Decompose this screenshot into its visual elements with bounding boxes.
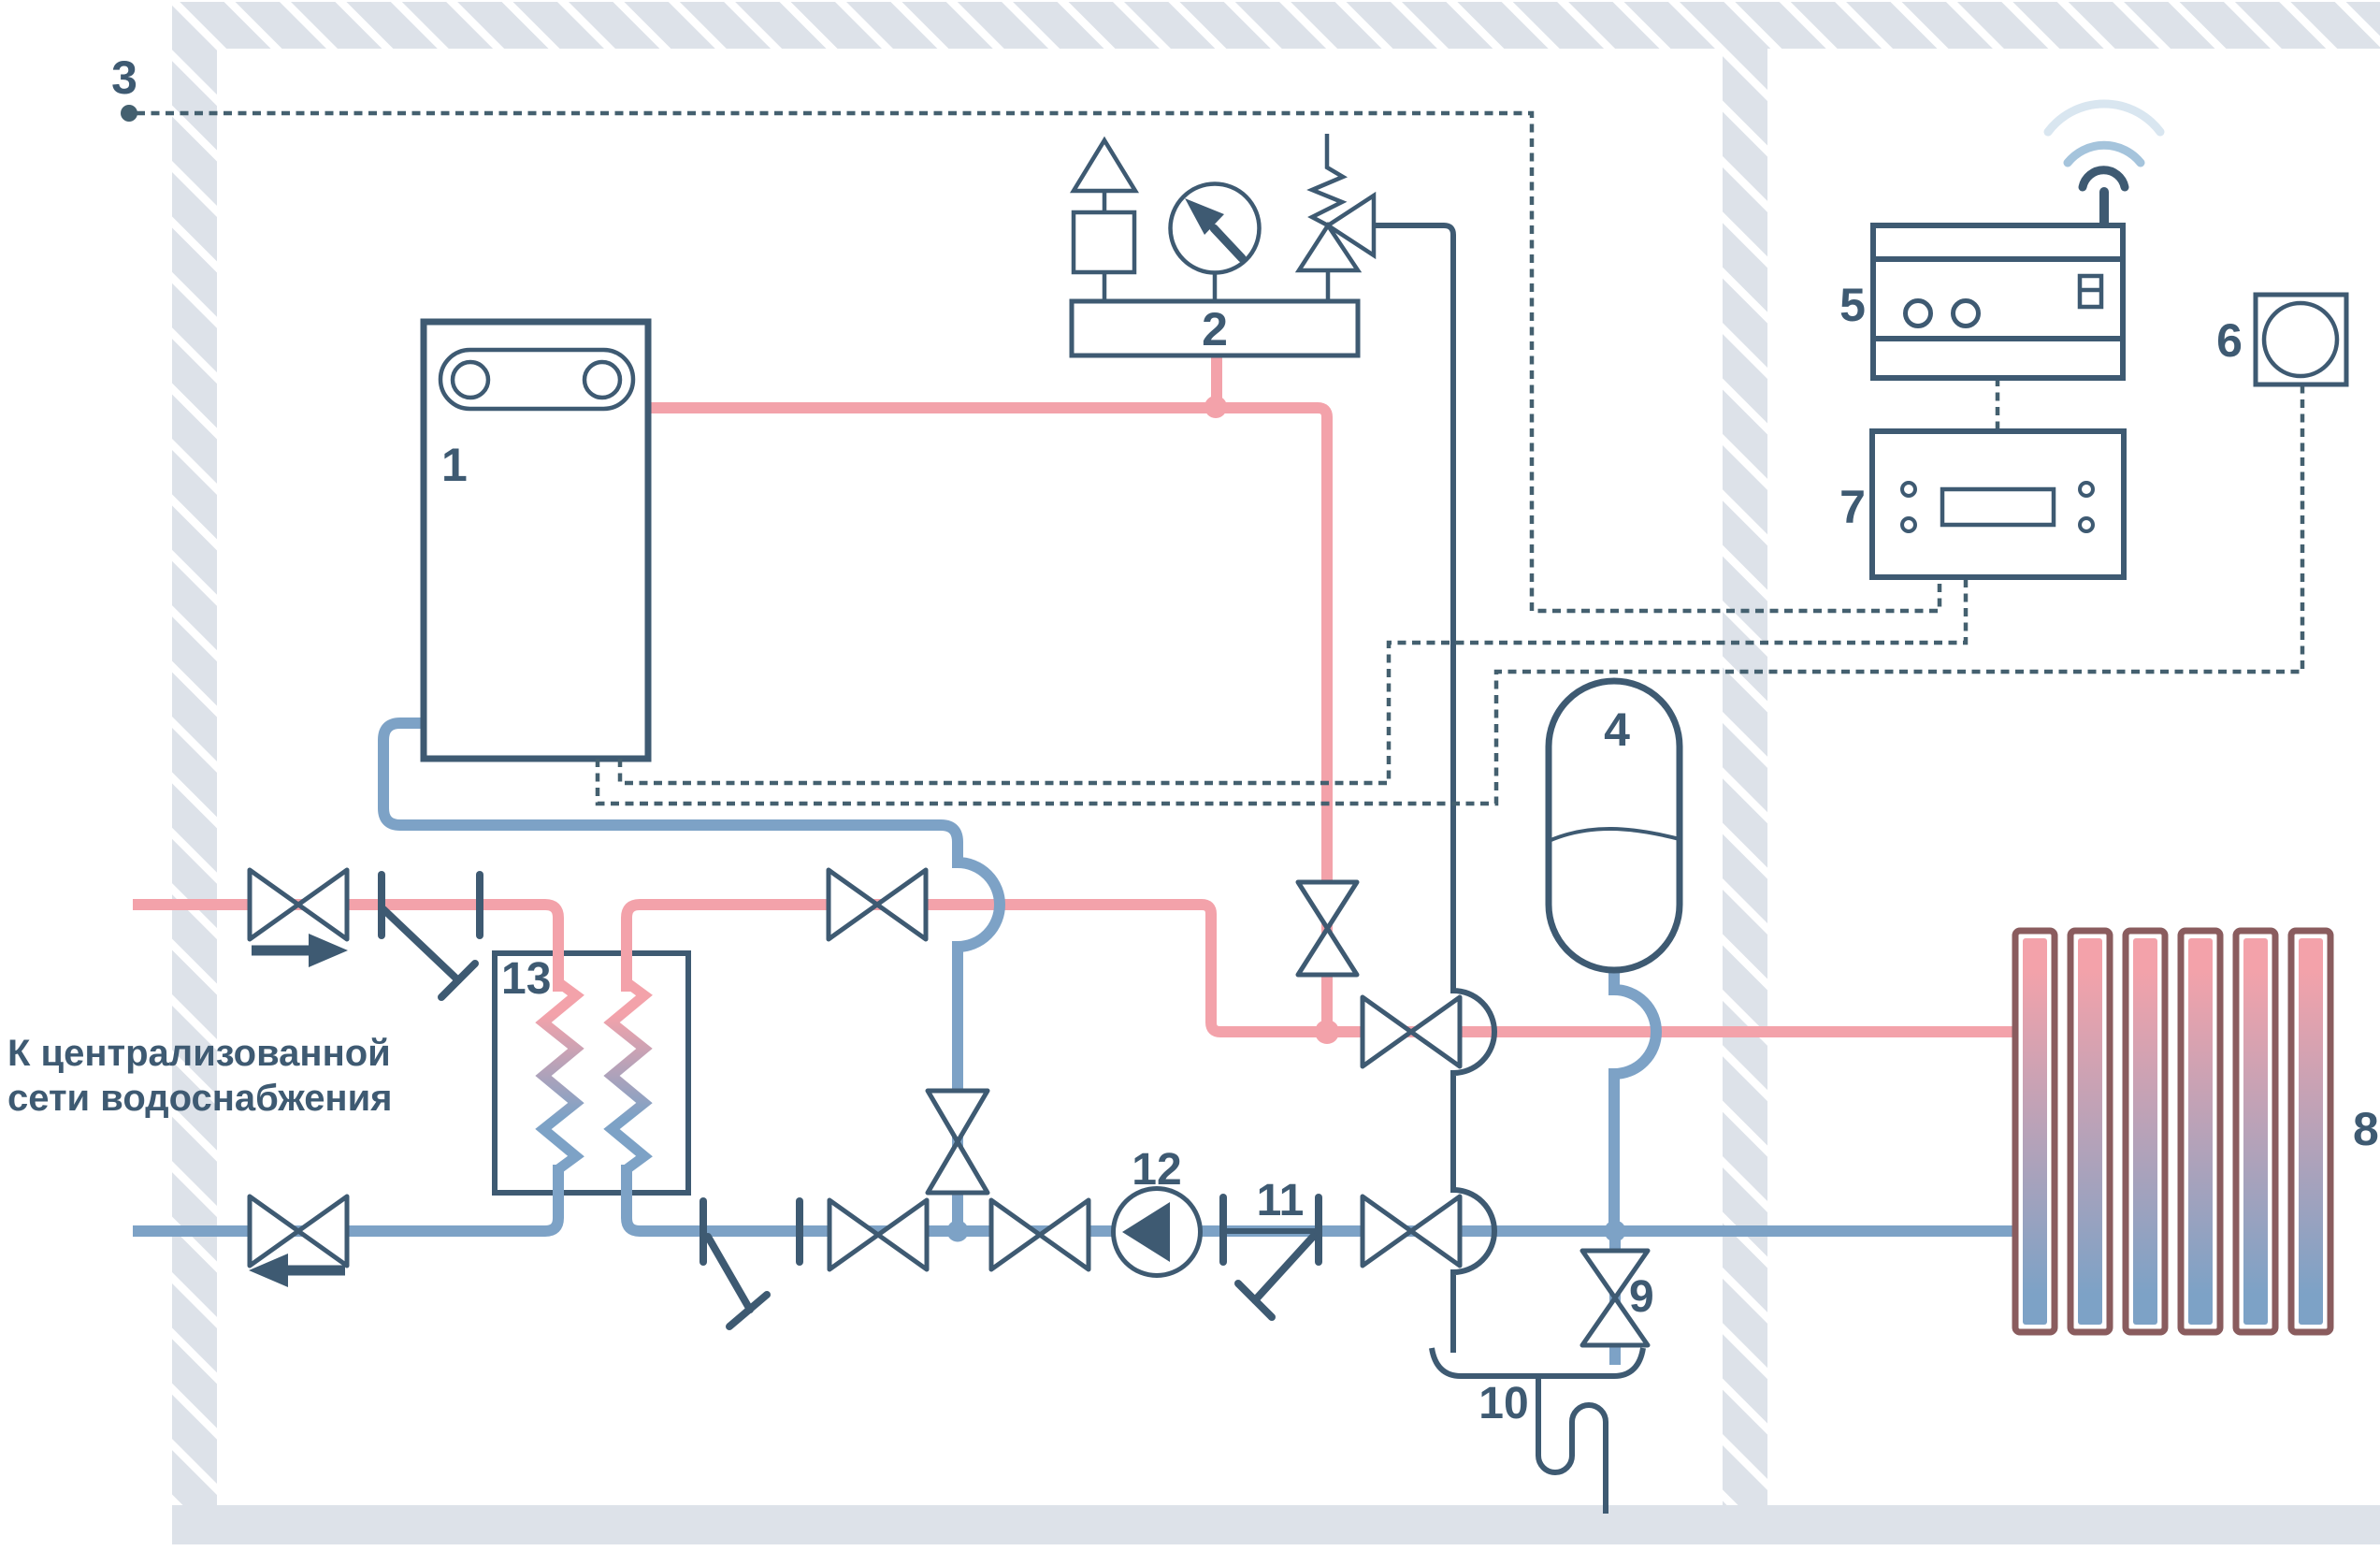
wire 3 to 7	[137, 113, 1940, 611]
wire safety valve drain navy	[1373, 225, 1494, 1353]
drain cup 10	[1432, 1348, 1643, 1376]
wall: top band	[172, 2, 2380, 49]
svg-text:сети водоснабжения: сети водоснабжения	[7, 1078, 393, 1119]
svg-text:1: 1	[441, 439, 468, 491]
heat exchanger 13 box	[495, 953, 688, 1193]
junction pink at safety group	[1204, 396, 1227, 418]
wall: bottom band	[172, 1505, 2380, 1544]
valve on pink city supply	[250, 870, 347, 939]
node 3	[121, 105, 137, 122]
wire valve9 drop	[1609, 1231, 1621, 1365]
wall: interior partition	[1723, 49, 1767, 1505]
radiator bar 5	[2236, 931, 2275, 1332]
valve blue return B	[991, 1200, 1089, 1269]
valve on pink radiator flow	[1363, 997, 1460, 1066]
svg-text:3: 3	[111, 51, 137, 104]
vessel membrane line	[1549, 829, 1680, 841]
radiator bar 6	[2291, 931, 2330, 1332]
wall: left wall	[172, 2, 217, 1544]
svg-text:2: 2	[1202, 303, 1228, 355]
wire boiler flow top	[648, 408, 1327, 1026]
wire city return out	[133, 1165, 558, 1231]
drain trap pipe	[1538, 1376, 1606, 1514]
wire exchanger to radiator flow	[627, 905, 2021, 1032]
valve on blue return right	[1363, 1196, 1460, 1266]
wire heating return main	[627, 1165, 2021, 1231]
safety relief valve	[1299, 134, 1374, 270]
device 5	[1873, 192, 2123, 378]
air vent	[1074, 140, 1135, 191]
radiator bar 1	[2015, 931, 2055, 1332]
valve 9	[1582, 1251, 1648, 1345]
svg-text:13: 13	[501, 954, 551, 1004]
wire city supply in	[133, 905, 558, 992]
svg-text:8: 8	[2353, 1103, 2379, 1155]
device 7	[1872, 431, 2124, 577]
safety valve stem	[1326, 270, 1331, 301]
heat exchanger 13 coils	[543, 935, 644, 1181]
boiler 1	[424, 322, 648, 759]
radiator bar 3	[2126, 931, 2165, 1332]
junction blue T vessel/valve9	[1605, 1221, 1626, 1242]
svg-text:5: 5	[1839, 279, 1866, 331]
blue pipes	[133, 723, 2021, 1365]
svg-text:6: 6	[2216, 314, 2243, 367]
strainer on blue return left	[703, 1201, 800, 1326]
boiler burner window	[440, 350, 633, 409]
device 6	[2256, 295, 2346, 384]
pink pipes	[133, 355, 2021, 1032]
svg-text:7: 7	[1839, 481, 1866, 533]
wifi arcs	[2048, 104, 2160, 187]
expansion vessel 4	[1549, 681, 1680, 970]
radiator bar 4	[2181, 931, 2220, 1332]
safety group 2	[1072, 140, 1358, 355]
svg-text:12: 12	[1132, 1145, 1181, 1195]
radiator 8	[2015, 931, 2330, 1332]
pump 12	[1114, 1189, 1201, 1276]
wire boiler to 6	[598, 384, 2302, 804]
radiator bar 2	[2070, 931, 2110, 1332]
strainer on pink city supply	[382, 875, 480, 997]
junction pink at radiator flow	[1315, 1020, 1339, 1044]
svg-text:10: 10	[1478, 1379, 1528, 1428]
wire boiler return elbow	[383, 723, 1000, 1225]
svg-text:4: 4	[1604, 703, 1630, 756]
arrow right below valve	[252, 946, 314, 956]
svg-text:К централизованной: К централизованной	[7, 1033, 391, 1074]
wire safety group stub	[1211, 355, 1222, 408]
union 11	[1223, 1197, 1319, 1317]
exchanger coil left	[543, 935, 576, 1181]
svg-text:11: 11	[1257, 1176, 1305, 1225]
arrow left below valve	[282, 1266, 345, 1276]
valve on blue city return	[250, 1196, 347, 1266]
wire expansion vessel drop	[1614, 964, 1656, 1231]
pressure gauge	[1213, 272, 1218, 301]
wire boiler to 7	[620, 577, 1966, 783]
junction blue T boiler return	[947, 1221, 969, 1242]
exchanger coil right	[612, 935, 644, 1181]
valve vertical on boiler return	[928, 1091, 988, 1193]
wire 5 to 7	[1996, 378, 2000, 431]
valve blue return A	[829, 1200, 927, 1269]
valve vertical on pink riser	[1298, 882, 1357, 975]
svg-text:9: 9	[1629, 1272, 1654, 1322]
valve on pink mid (exchanger outlet)	[829, 870, 926, 939]
